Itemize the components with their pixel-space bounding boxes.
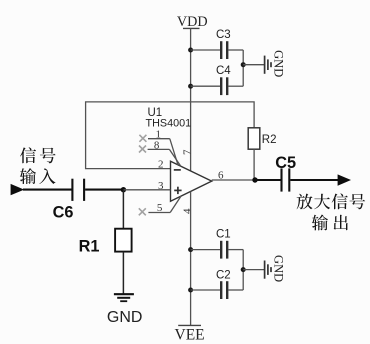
ground symbol bottom right bbox=[243, 255, 285, 282]
output arrow bbox=[338, 174, 351, 185]
capacitor C3 bbox=[191, 29, 244, 59]
svg-text:C2: C2 bbox=[216, 270, 231, 282]
ground symbol R1 bbox=[107, 294, 143, 326]
junction node bottom ground tap bbox=[241, 267, 246, 272]
junction node C4 tap bbox=[188, 84, 193, 89]
svg-text:R1: R1 bbox=[79, 238, 100, 256]
wire input node to R1 bbox=[122, 190, 124, 229]
pin 1 NC bbox=[139, 129, 178, 165]
junction node C2 tap bbox=[188, 288, 193, 293]
svg-text:5: 5 bbox=[157, 202, 163, 214]
resistor R2 bbox=[248, 128, 276, 149]
pin 2 label bbox=[158, 159, 164, 171]
svg-text:THS4001: THS4001 bbox=[146, 118, 192, 130]
wire feedback loop pin2 to R2 bbox=[86, 102, 255, 169]
capacitor C1 bbox=[191, 228, 244, 258]
wire C1-C2 right bus bbox=[242, 250, 244, 290]
pin 5 NC bbox=[139, 196, 181, 215]
svg-text:6: 6 bbox=[218, 170, 224, 182]
svg-text:8: 8 bbox=[154, 139, 160, 151]
wire output node to C5 bbox=[255, 179, 281, 181]
svg-text:4: 4 bbox=[182, 208, 194, 214]
wire pin 4 to VEE rail bbox=[190, 192, 192, 326]
svg-text:GND: GND bbox=[271, 255, 285, 282]
op-amp U1 designator bbox=[146, 107, 192, 130]
op-amp U1 triangle bbox=[171, 161, 212, 201]
resistor R1 bbox=[79, 229, 132, 256]
wire R1 to ground bbox=[122, 252, 124, 294]
capacitor C2 bbox=[191, 270, 244, 299]
svg-text:C1: C1 bbox=[216, 228, 231, 240]
svg-text:C3: C3 bbox=[216, 29, 231, 41]
svg-text:R2: R2 bbox=[262, 134, 277, 146]
power port VEE bbox=[175, 325, 205, 343]
signal input label bbox=[20, 147, 56, 184]
amplified signal output label bbox=[297, 193, 366, 230]
input arrow bbox=[11, 184, 25, 195]
svg-text:7: 7 bbox=[181, 149, 193, 155]
capacitor C5 bbox=[275, 154, 296, 191]
pin 3 label bbox=[158, 180, 164, 192]
svg-text:C6: C6 bbox=[53, 203, 74, 221]
svg-text:GND: GND bbox=[107, 309, 143, 326]
junction node input bbox=[121, 187, 126, 192]
junction node output bbox=[252, 177, 257, 182]
junction node C3 tap bbox=[188, 48, 193, 53]
power port VDD bbox=[177, 14, 208, 30]
wire pin 3 input bbox=[123, 189, 170, 191]
svg-text:2: 2 bbox=[158, 159, 164, 171]
wire R2 bottom to output node bbox=[253, 149, 255, 180]
pin 7 label bbox=[181, 149, 193, 155]
svg-text:C5: C5 bbox=[275, 154, 296, 172]
wire C3-C4 right bus bbox=[242, 50, 244, 86]
svg-text:GND: GND bbox=[271, 50, 285, 77]
wire input to C6 bbox=[23, 189, 72, 191]
wire pin 6 to output node bbox=[212, 170, 255, 182]
junction node C1 tap bbox=[188, 247, 193, 252]
capacitor C4 bbox=[191, 65, 244, 95]
ground symbol top right bbox=[243, 50, 285, 77]
pin 8 NC bbox=[139, 139, 181, 166]
wire C6 to input node bbox=[85, 189, 124, 191]
wire C5 to output arrow bbox=[290, 179, 338, 181]
wire VDD rail to pin 7 bbox=[190, 28, 192, 170]
svg-text:VEE: VEE bbox=[175, 327, 205, 344]
capacitor C6 bbox=[53, 179, 85, 222]
pin 4 label bbox=[182, 208, 194, 214]
junction node top ground tap bbox=[241, 62, 246, 67]
svg-text:C4: C4 bbox=[216, 65, 231, 77]
